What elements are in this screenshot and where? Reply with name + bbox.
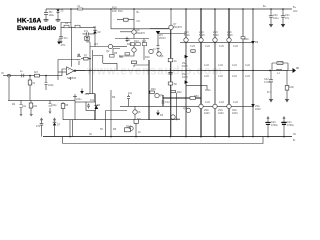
svg-text:R10: R10 xyxy=(118,10,123,13)
svg-text:0.22: 0.22 xyxy=(205,101,210,104)
svg-text:2W10: 2W10 xyxy=(159,37,166,40)
svg-text:4700u: 4700u xyxy=(287,124,295,127)
svg-text:0.22: 0.22 xyxy=(219,101,224,104)
svg-text:0.22: 0.22 xyxy=(232,75,237,78)
svg-text:Q11: Q11 xyxy=(183,107,188,110)
svg-text:1943: 1943 xyxy=(204,112,210,115)
svg-text:B-: B- xyxy=(293,139,296,142)
svg-text:R20: R20 xyxy=(151,88,156,91)
svg-text:0.22: 0.22 xyxy=(204,64,209,67)
svg-text:Evens Audio: Evens Audio xyxy=(17,25,56,32)
svg-text:0.22: 0.22 xyxy=(190,45,195,48)
svg-text:100u: 100u xyxy=(273,17,279,20)
svg-text:R11: R11 xyxy=(137,118,142,121)
svg-text:0.22: 0.22 xyxy=(218,64,223,67)
svg-text:0V: 0V xyxy=(293,133,296,136)
svg-text:2SA970: 2SA970 xyxy=(173,26,183,29)
svg-text:5200: 5200 xyxy=(199,34,205,37)
svg-text:B+: B+ xyxy=(293,6,297,9)
svg-text:2SA970: 2SA970 xyxy=(136,32,146,35)
svg-text:47u: 47u xyxy=(36,125,41,128)
svg-text:1943: 1943 xyxy=(182,65,188,68)
svg-text:0.047u: 0.047u xyxy=(264,81,272,84)
svg-text:47u: 47u xyxy=(285,17,290,20)
svg-text:100u: 100u xyxy=(205,89,211,92)
svg-text:100p: 100p xyxy=(48,84,54,87)
svg-text:5200: 5200 xyxy=(213,34,219,37)
svg-text:1943: 1943 xyxy=(218,112,224,115)
svg-text:0.22: 0.22 xyxy=(232,64,237,67)
svg-text:5200: 5200 xyxy=(227,34,233,37)
svg-text:4k7: 4k7 xyxy=(34,71,39,74)
svg-text:100u: 100u xyxy=(76,98,82,101)
svg-text:-15V: -15V xyxy=(60,44,66,47)
svg-text:0.22: 0.22 xyxy=(245,75,250,78)
svg-text:4700u: 4700u xyxy=(271,124,279,127)
svg-text:B+: B+ xyxy=(263,5,267,8)
svg-text:42V: 42V xyxy=(293,10,298,13)
svg-text:100p: 100p xyxy=(51,104,57,107)
svg-text:0.22: 0.22 xyxy=(218,75,223,78)
svg-text:R13: R13 xyxy=(134,40,139,43)
svg-text:R12: R12 xyxy=(127,43,132,46)
svg-text:1943: 1943 xyxy=(255,108,261,111)
svg-text:HK-16A: HK-16A xyxy=(17,18,42,25)
svg-text:10u: 10u xyxy=(90,99,95,102)
svg-text:0.22: 0.22 xyxy=(245,64,250,67)
svg-text:NE5534: NE5534 xyxy=(67,77,77,80)
svg-text:0.22: 0.22 xyxy=(204,75,209,78)
svg-text:1943: 1943 xyxy=(182,76,188,79)
svg-text:8R: 8R xyxy=(296,67,299,70)
svg-text:R22: R22 xyxy=(177,91,182,94)
svg-text:0.22: 0.22 xyxy=(233,45,238,48)
svg-text:Q12: Q12 xyxy=(126,125,131,128)
svg-text:10R: 10R xyxy=(289,86,294,89)
svg-text:0V: 0V xyxy=(89,133,92,136)
svg-text:47u: 47u xyxy=(84,30,89,33)
svg-text:R16: R16 xyxy=(145,56,150,59)
svg-text:10u: 10u xyxy=(22,105,27,108)
svg-text:10R: 10R xyxy=(112,10,117,13)
svg-text:B+: B+ xyxy=(137,11,141,14)
svg-text:0.22: 0.22 xyxy=(205,45,210,48)
svg-text:5200: 5200 xyxy=(184,34,190,37)
svg-text:IN: IN xyxy=(1,72,4,75)
svg-text:0.22: 0.22 xyxy=(233,101,238,104)
svg-text:47u: 47u xyxy=(64,37,69,40)
svg-text:100u: 100u xyxy=(49,14,55,17)
svg-text:www.evensaudio.com: www.evensaudio.com xyxy=(86,66,223,78)
svg-text:-15V: -15V xyxy=(84,93,90,96)
svg-text:4k7: 4k7 xyxy=(142,40,147,43)
svg-text:0.22: 0.22 xyxy=(219,45,224,48)
svg-text:4k7: 4k7 xyxy=(94,43,99,46)
svg-text:R40: R40 xyxy=(244,38,249,41)
svg-text:C12: C12 xyxy=(165,101,170,104)
svg-text:10u: 10u xyxy=(126,39,131,42)
svg-text:Q10: Q10 xyxy=(175,118,180,121)
svg-text:10u: 10u xyxy=(128,92,133,95)
svg-text:10R: 10R xyxy=(278,62,283,65)
svg-text:1943: 1943 xyxy=(232,112,238,115)
